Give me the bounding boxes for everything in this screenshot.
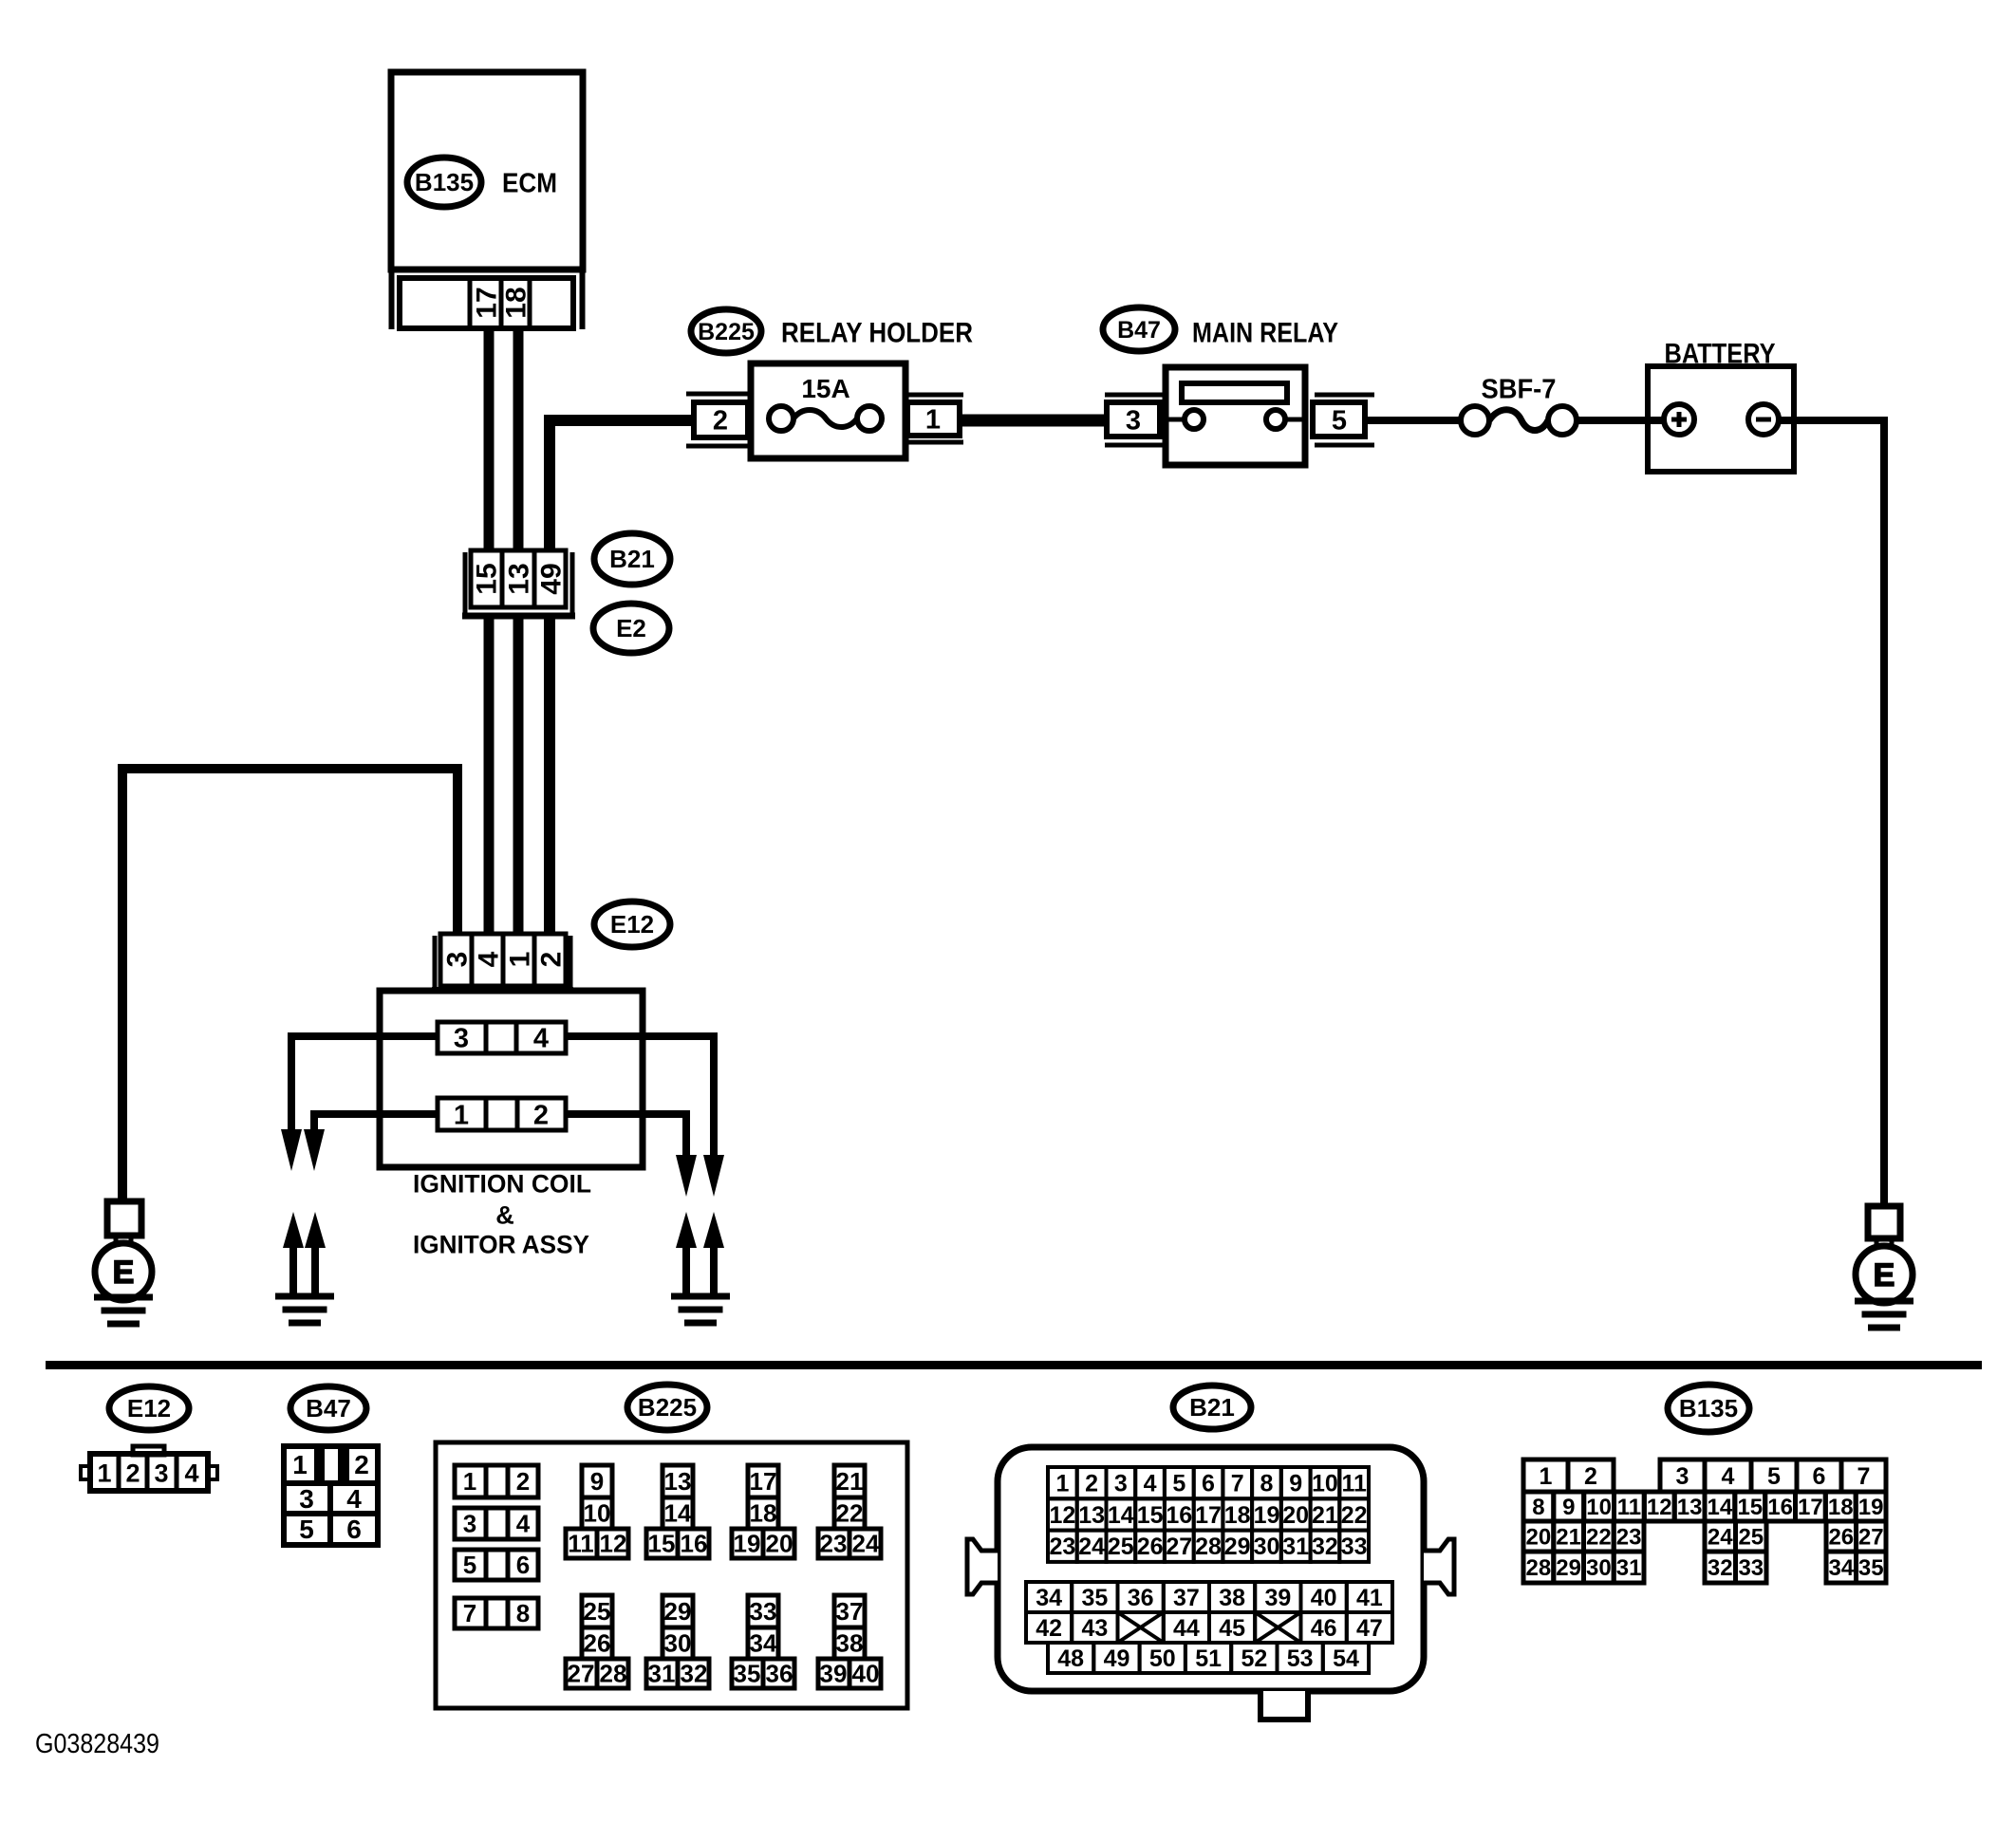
main relay coil slot xyxy=(1182,383,1287,402)
svg-text:20: 20 xyxy=(1282,1502,1309,1529)
svg-text:44: 44 xyxy=(1173,1615,1200,1642)
svg-text:28: 28 xyxy=(1526,1555,1552,1581)
svg-text:G03828439: G03828439 xyxy=(35,1729,159,1759)
battery box xyxy=(1648,366,1794,472)
wire ECM pin 17 down xyxy=(484,327,495,555)
svg-text:10: 10 xyxy=(584,1499,611,1528)
B135 pin 5 xyxy=(1751,1459,1797,1492)
relay holder pin 1 xyxy=(904,393,963,398)
svg-text:26: 26 xyxy=(1137,1534,1164,1560)
svg-text:17: 17 xyxy=(750,1467,777,1496)
svg-text:43: 43 xyxy=(1081,1615,1108,1642)
B135 pin 32 xyxy=(1705,1552,1736,1583)
B21 pin 23 xyxy=(1048,1531,1077,1562)
B135 pin 33 xyxy=(1736,1552,1767,1583)
B135 pin 31 xyxy=(1614,1552,1644,1583)
svg-text:SBF-7: SBF-7 xyxy=(1482,374,1557,404)
connector B47 pinout xyxy=(284,1446,317,1483)
svg-text:&: & xyxy=(495,1201,514,1230)
svg-text:B135: B135 xyxy=(1679,1394,1738,1422)
svg-text:36: 36 xyxy=(1128,1585,1154,1611)
svg-text:1: 1 xyxy=(505,952,536,968)
B21 pin 41 xyxy=(1347,1582,1392,1612)
svg-text:4: 4 xyxy=(474,951,505,967)
svg-text:33: 33 xyxy=(1738,1555,1764,1581)
B21 pin 42 xyxy=(1026,1612,1072,1643)
svg-text:27: 27 xyxy=(568,1660,595,1688)
main relay contact stubs xyxy=(1166,418,1186,422)
svg-text:29: 29 xyxy=(1556,1555,1581,1581)
B135 pin 23 xyxy=(1614,1521,1644,1552)
svg-text:17: 17 xyxy=(1195,1502,1222,1529)
B21 pin 3 xyxy=(1107,1467,1136,1498)
svg-text:20: 20 xyxy=(766,1530,793,1558)
B21 pin 31 xyxy=(1281,1531,1311,1562)
B135 pin 19 xyxy=(1856,1492,1886,1521)
main relay pin 3 xyxy=(1105,393,1164,398)
svg-text:B47: B47 xyxy=(1117,317,1161,344)
right ground terminal E xyxy=(1856,1246,1913,1303)
B225 pins 13/14/15/16 xyxy=(663,1465,693,1497)
svg-text:2: 2 xyxy=(516,1467,530,1496)
left ground terminal E xyxy=(95,1243,152,1300)
svg-text:12: 12 xyxy=(600,1530,627,1558)
ground symbol right E xyxy=(1855,1298,1913,1305)
B225 pins 5-6 xyxy=(455,1550,538,1580)
B21 pin 40 xyxy=(1301,1582,1347,1612)
svg-text:21: 21 xyxy=(1556,1525,1581,1551)
svg-text:22: 22 xyxy=(1341,1502,1368,1529)
svg-text:26: 26 xyxy=(1828,1525,1854,1551)
B135 pin 2 xyxy=(1568,1459,1614,1492)
B21 shell right tab xyxy=(1424,1539,1454,1594)
B21 shell bottom tab xyxy=(1260,1691,1308,1720)
svg-text:54: 54 xyxy=(1333,1645,1359,1672)
ground symbol below coil right xyxy=(671,1293,730,1300)
spark output up arrows right xyxy=(676,1212,697,1248)
svg-text:B225: B225 xyxy=(638,1393,697,1422)
svg-text:15: 15 xyxy=(472,563,503,594)
battery positive terminal xyxy=(1664,404,1694,435)
svg-text:B225: B225 xyxy=(698,319,755,345)
B21 pin 26 xyxy=(1135,1531,1165,1562)
svg-text:B21: B21 xyxy=(609,545,655,573)
connector B21 pinout shell xyxy=(998,1447,1424,1691)
oval B21 bottom xyxy=(1173,1385,1251,1429)
svg-text:9: 9 xyxy=(590,1467,604,1496)
svg-text:33: 33 xyxy=(750,1597,777,1626)
B135 pin 21 xyxy=(1554,1521,1584,1552)
wire from terminal 3 to left output xyxy=(291,1036,438,1135)
B135 pin 30 xyxy=(1584,1552,1615,1583)
svg-text:18: 18 xyxy=(501,287,532,318)
svg-text:B47: B47 xyxy=(306,1394,351,1422)
svg-text:15: 15 xyxy=(1137,1502,1164,1529)
B135 pin 13 xyxy=(1674,1492,1705,1521)
oval E12 bottom xyxy=(109,1386,189,1430)
svg-text:25: 25 xyxy=(584,1597,611,1626)
B135 pin 16 xyxy=(1765,1492,1796,1521)
relay holder pin 2 xyxy=(686,392,751,397)
B21 pin 32 xyxy=(1311,1531,1340,1562)
B225 pins 25/26/27/28 xyxy=(582,1595,612,1627)
svg-text:30: 30 xyxy=(1586,1555,1612,1581)
svg-text:E12: E12 xyxy=(610,910,654,939)
B21 pin 22 xyxy=(1339,1498,1369,1530)
svg-text:40: 40 xyxy=(852,1660,880,1688)
B21 pin 29 xyxy=(1223,1531,1252,1562)
svg-text:9: 9 xyxy=(1289,1471,1302,1497)
svg-text:16: 16 xyxy=(681,1530,708,1558)
B21 pin 6 xyxy=(1194,1467,1223,1498)
wire left ground loop horizontal xyxy=(122,769,457,1201)
wire relay holder pin 1 to main relay pin 3 xyxy=(960,415,1109,427)
svg-text:MAIN RELAY: MAIN RELAY xyxy=(1192,318,1338,349)
B135 pin 8 xyxy=(1523,1492,1554,1521)
svg-text:11: 11 xyxy=(1341,1471,1367,1497)
svg-text:2: 2 xyxy=(125,1459,140,1488)
svg-text:10: 10 xyxy=(1586,1495,1612,1520)
svg-text:3: 3 xyxy=(463,1510,476,1538)
svg-text:1: 1 xyxy=(454,1100,469,1130)
B135 pin 7 xyxy=(1841,1459,1886,1492)
right ground connector square xyxy=(1868,1206,1900,1238)
svg-text:6: 6 xyxy=(516,1551,530,1579)
B21 pin 37 xyxy=(1164,1582,1209,1612)
svg-text:49: 49 xyxy=(1104,1645,1130,1672)
ECM connector shroud sides xyxy=(389,270,395,329)
wire from terminal 1 to left output xyxy=(314,1114,438,1135)
B225 pins 1-2 xyxy=(455,1465,538,1497)
B135 pin 14 xyxy=(1705,1492,1735,1521)
svg-text:7: 7 xyxy=(1231,1471,1244,1497)
svg-text:21: 21 xyxy=(1312,1502,1338,1529)
svg-text:27: 27 xyxy=(1166,1534,1192,1560)
B21 pin 19 xyxy=(1252,1498,1281,1530)
fuse symbol xyxy=(769,406,793,431)
svg-text:6: 6 xyxy=(1202,1471,1215,1497)
B225 pins 21/22/23/24 xyxy=(834,1465,865,1497)
svg-text:52: 52 xyxy=(1241,1645,1267,1672)
svg-text:16: 16 xyxy=(1767,1495,1793,1520)
B21 pin 52 xyxy=(1231,1643,1277,1673)
B135 pin 24 xyxy=(1705,1521,1736,1552)
svg-text:ECM: ECM xyxy=(502,168,557,198)
B21 pin 36 xyxy=(1118,1582,1164,1612)
B21 shell left tab xyxy=(967,1539,998,1594)
B135 pin 25 xyxy=(1736,1521,1767,1552)
svg-text:14: 14 xyxy=(664,1499,692,1528)
B21 pin 18 xyxy=(1223,1498,1252,1530)
oval E12 xyxy=(594,902,670,947)
B21 pin 43 xyxy=(1072,1612,1117,1643)
connector B21/E2 bracket xyxy=(463,552,468,619)
B21 pin 53 xyxy=(1278,1643,1323,1673)
svg-text:3: 3 xyxy=(154,1459,168,1488)
B135 pin 15 xyxy=(1735,1492,1765,1521)
wire SBF-7 to battery xyxy=(1577,417,1667,424)
B135 pin 18 xyxy=(1825,1492,1856,1521)
svg-text:36: 36 xyxy=(766,1660,793,1688)
svg-text:B21: B21 xyxy=(1189,1393,1235,1422)
B21 pin 38 xyxy=(1209,1582,1255,1612)
svg-text:7: 7 xyxy=(1857,1463,1871,1490)
wire 49 down to E12 pin 2 xyxy=(544,619,555,936)
svg-text:25: 25 xyxy=(1108,1534,1134,1560)
svg-text:32: 32 xyxy=(1708,1555,1733,1581)
svg-text:11: 11 xyxy=(1617,1495,1641,1520)
svg-text:2: 2 xyxy=(1085,1471,1098,1497)
B135 pin 35 xyxy=(1857,1552,1887,1583)
svg-text:16: 16 xyxy=(1166,1502,1192,1529)
svg-text:24: 24 xyxy=(1708,1525,1733,1551)
svg-text:29: 29 xyxy=(664,1597,692,1626)
svg-text:19: 19 xyxy=(1858,1495,1884,1520)
B21 pin 34 xyxy=(1026,1582,1072,1612)
B21 pin 9 xyxy=(1281,1467,1311,1498)
svg-text:4: 4 xyxy=(516,1510,531,1538)
B225 pins 3-4 xyxy=(455,1508,538,1539)
wire from terminal 4 to right output xyxy=(566,1036,714,1160)
svg-text:29: 29 xyxy=(1224,1534,1251,1560)
B135 pin 11 xyxy=(1615,1492,1645,1521)
svg-text:3: 3 xyxy=(1676,1463,1689,1490)
B21 pin 7 xyxy=(1223,1467,1252,1498)
svg-text:3: 3 xyxy=(1126,405,1141,436)
B21 pin 16 xyxy=(1165,1498,1194,1530)
svg-text:2: 2 xyxy=(354,1450,369,1479)
B21 pin 11 xyxy=(1339,1467,1369,1498)
connector E12 bracket xyxy=(433,936,438,993)
svg-text:19: 19 xyxy=(734,1530,761,1558)
B21 blocked cavity xyxy=(1255,1612,1300,1643)
B135 pin 12 xyxy=(1644,1492,1674,1521)
B21 pin 2 xyxy=(1077,1467,1107,1498)
svg-text:28: 28 xyxy=(1195,1534,1222,1560)
B135 pin 10 xyxy=(1584,1492,1615,1521)
svg-text:38: 38 xyxy=(1219,1585,1245,1611)
wire 15 down to E12 pin 4 xyxy=(484,619,495,936)
svg-text:11: 11 xyxy=(568,1530,594,1558)
svg-text:35: 35 xyxy=(734,1660,761,1688)
right ground neck xyxy=(1875,1237,1879,1248)
B21 pin 25 xyxy=(1107,1531,1136,1562)
B21 pin 21 xyxy=(1311,1498,1340,1530)
B21 pin 48 xyxy=(1048,1643,1093,1673)
coil terminal strip 1-2 xyxy=(438,1098,566,1130)
svg-text:8: 8 xyxy=(1260,1471,1274,1497)
svg-text:17: 17 xyxy=(472,287,503,318)
svg-text:9: 9 xyxy=(1562,1495,1575,1520)
svg-text:31: 31 xyxy=(648,1660,676,1688)
svg-text:3: 3 xyxy=(454,1023,469,1053)
svg-text:22: 22 xyxy=(1586,1525,1612,1551)
svg-text:6: 6 xyxy=(346,1515,362,1544)
B21 pin 45 xyxy=(1209,1612,1255,1643)
B21 pin 51 xyxy=(1185,1643,1231,1673)
B21 pin 4 xyxy=(1135,1467,1165,1498)
B135 pin 26 xyxy=(1826,1521,1857,1552)
svg-text:7: 7 xyxy=(463,1599,476,1627)
svg-text:3: 3 xyxy=(1114,1471,1128,1497)
svg-text:13: 13 xyxy=(664,1467,692,1496)
oval B47 bottom xyxy=(290,1386,366,1430)
svg-text:21: 21 xyxy=(836,1467,864,1496)
svg-text:5: 5 xyxy=(1332,405,1347,436)
svg-text:23: 23 xyxy=(1616,1525,1642,1551)
svg-text:18: 18 xyxy=(1828,1495,1854,1520)
svg-text:8: 8 xyxy=(1532,1495,1544,1520)
svg-text:2: 2 xyxy=(713,405,728,436)
svg-text:34: 34 xyxy=(1828,1555,1854,1581)
main relay contacts xyxy=(1185,410,1204,429)
wire ECM pin 18 down xyxy=(513,327,524,555)
svg-text:46: 46 xyxy=(1311,1615,1337,1642)
main relay box xyxy=(1166,367,1305,465)
svg-text:10: 10 xyxy=(1312,1471,1338,1497)
svg-text:4: 4 xyxy=(533,1023,549,1053)
B135 pin 1 xyxy=(1523,1459,1568,1492)
ignition coil box xyxy=(380,991,643,1167)
svg-text:1: 1 xyxy=(97,1459,111,1488)
B21 pin 20 xyxy=(1281,1498,1311,1530)
B21 pin 39 xyxy=(1255,1582,1300,1612)
B21 pin 14 xyxy=(1107,1498,1136,1530)
svg-text:39: 39 xyxy=(820,1660,848,1688)
svg-text:3: 3 xyxy=(442,952,474,968)
relay holder box xyxy=(751,363,905,458)
B21 pin 12 xyxy=(1048,1498,1077,1530)
svg-text:E: E xyxy=(1874,1257,1895,1293)
B21 pin 17 xyxy=(1194,1498,1223,1530)
svg-text:4: 4 xyxy=(346,1484,362,1514)
B21 pin 27 xyxy=(1165,1531,1194,1562)
svg-text:5: 5 xyxy=(463,1551,476,1579)
svg-text:27: 27 xyxy=(1858,1525,1884,1551)
B225 pins 33/34/35/36 xyxy=(748,1595,778,1627)
svg-text:32: 32 xyxy=(1312,1534,1338,1560)
svg-text:34: 34 xyxy=(750,1629,777,1658)
B21 blocked cavity xyxy=(1118,1612,1164,1643)
svg-text:5: 5 xyxy=(299,1515,314,1544)
svg-text:49: 49 xyxy=(536,563,568,594)
svg-text:14: 14 xyxy=(1108,1502,1134,1529)
B225 pins 9/10/11/12 xyxy=(582,1465,612,1497)
ground symbol below coil left xyxy=(275,1293,334,1300)
connector E12 pinout xyxy=(133,1446,164,1455)
oval B47 xyxy=(1103,307,1175,351)
svg-text:IGNITION COIL: IGNITION COIL xyxy=(413,1170,591,1199)
B21 pin 8 xyxy=(1252,1467,1281,1498)
B135 pin 22 xyxy=(1584,1521,1615,1552)
svg-text:37: 37 xyxy=(836,1597,864,1626)
svg-text:23: 23 xyxy=(820,1530,848,1558)
main relay pin 5 xyxy=(1315,393,1374,398)
svg-text:32: 32 xyxy=(681,1660,708,1688)
svg-text:47: 47 xyxy=(1356,1615,1383,1642)
svg-text:13: 13 xyxy=(1677,1495,1703,1520)
B21 pin 54 xyxy=(1323,1643,1369,1673)
svg-text:12: 12 xyxy=(1049,1502,1075,1529)
svg-text:30: 30 xyxy=(664,1629,692,1658)
svg-text:48: 48 xyxy=(1057,1645,1084,1672)
svg-text:5: 5 xyxy=(1172,1471,1185,1497)
svg-text:24: 24 xyxy=(852,1530,880,1558)
svg-text:13: 13 xyxy=(504,563,535,594)
connector B21/E2 body xyxy=(471,550,566,607)
B135 pin 9 xyxy=(1554,1492,1584,1521)
left ground connector square xyxy=(107,1201,141,1236)
ground symbol left E xyxy=(94,1294,153,1301)
svg-text:20: 20 xyxy=(1526,1525,1552,1551)
B21 pin 1 xyxy=(1048,1467,1077,1498)
B135 pin 20 xyxy=(1523,1521,1554,1552)
B21 pin 33 xyxy=(1339,1531,1369,1562)
svg-text:2: 2 xyxy=(533,1100,549,1130)
svg-text:15: 15 xyxy=(648,1530,676,1558)
left ground neck xyxy=(114,1235,119,1245)
B21 pin 28 xyxy=(1194,1531,1223,1562)
oval B21 xyxy=(594,533,670,585)
svg-text:4: 4 xyxy=(1144,1471,1157,1497)
spark output up arrows left xyxy=(283,1212,304,1248)
connector B225 pinout box xyxy=(436,1442,907,1708)
svg-text:18: 18 xyxy=(750,1499,777,1528)
B135 pin 29 xyxy=(1554,1552,1584,1583)
ECM connector strip xyxy=(400,278,573,328)
svg-text:35: 35 xyxy=(1858,1555,1884,1581)
B21 pin 44 xyxy=(1164,1612,1209,1643)
svg-text:42: 42 xyxy=(1036,1615,1062,1642)
wire 13 down to E12 pin 1 xyxy=(513,619,524,936)
svg-text:45: 45 xyxy=(1219,1615,1245,1642)
svg-text:30: 30 xyxy=(1254,1534,1280,1560)
B135 pin 34 xyxy=(1826,1552,1857,1583)
svg-text:38: 38 xyxy=(836,1629,864,1658)
svg-text:8: 8 xyxy=(516,1599,530,1627)
svg-text:5: 5 xyxy=(1767,1463,1781,1490)
ECM box xyxy=(391,72,583,270)
svg-text:1: 1 xyxy=(1055,1471,1069,1497)
svg-text:4: 4 xyxy=(184,1459,198,1488)
B21 pin 46 xyxy=(1301,1612,1347,1643)
svg-text:RELAY HOLDER: RELAY HOLDER xyxy=(781,318,973,349)
svg-text:4: 4 xyxy=(1722,1463,1735,1490)
svg-text:13: 13 xyxy=(1078,1502,1105,1529)
B21 pin 10 xyxy=(1311,1467,1340,1498)
oval B225 bottom xyxy=(627,1385,707,1430)
svg-text:31: 31 xyxy=(1282,1534,1309,1560)
svg-text:23: 23 xyxy=(1049,1534,1075,1560)
B135 pin 6 xyxy=(1797,1459,1841,1492)
svg-text:3: 3 xyxy=(299,1484,314,1514)
wire battery negative to right ground xyxy=(1779,420,1884,1206)
B21 pin 50 xyxy=(1140,1643,1185,1673)
svg-text:2: 2 xyxy=(1584,1463,1597,1490)
svg-text:19: 19 xyxy=(1254,1502,1280,1529)
svg-text:1: 1 xyxy=(1540,1463,1553,1490)
svg-text:24: 24 xyxy=(1078,1534,1105,1560)
svg-text:IGNITOR ASSY: IGNITOR ASSY xyxy=(413,1231,589,1259)
svg-text:26: 26 xyxy=(584,1629,611,1658)
B225 pins 29/30/31/32 xyxy=(663,1595,693,1627)
svg-text:1: 1 xyxy=(925,404,941,435)
svg-text:1: 1 xyxy=(463,1467,476,1496)
B21 pin 35 xyxy=(1072,1582,1117,1612)
coil terminal strip 3-4 xyxy=(438,1022,566,1053)
svg-text:22: 22 xyxy=(836,1499,864,1528)
svg-text:50: 50 xyxy=(1149,1645,1176,1672)
